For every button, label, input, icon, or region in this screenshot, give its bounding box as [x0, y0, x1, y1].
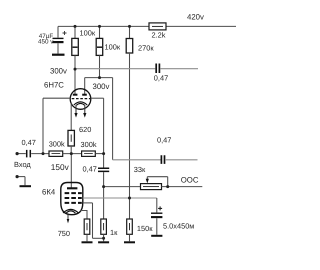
svg-text:270к: 270к: [138, 44, 154, 53]
svg-text:300k: 300k: [81, 140, 97, 149]
svg-text:750: 750: [58, 229, 70, 238]
svg-text:0,47: 0,47: [154, 74, 168, 83]
svg-text:300v: 300v: [93, 82, 110, 91]
svg-text:150v: 150v: [51, 162, 70, 172]
svg-text:150к: 150к: [137, 224, 153, 233]
svg-text:620: 620: [79, 125, 91, 134]
svg-text:2.2k: 2.2k: [152, 31, 166, 40]
svg-text:100к: 100к: [105, 43, 121, 52]
svg-text:5.0х450м: 5.0х450м: [163, 222, 194, 231]
svg-text:Вход: Вход: [14, 160, 31, 169]
svg-text:6К4: 6К4: [42, 188, 56, 197]
svg-text:1к: 1к: [110, 228, 118, 237]
svg-text:0,47: 0,47: [157, 136, 171, 145]
svg-text:100к: 100к: [80, 29, 96, 38]
svg-text:300k: 300k: [49, 140, 65, 149]
svg-text:ООС: ООС: [181, 176, 199, 185]
svg-text:0,47: 0,47: [83, 165, 97, 174]
svg-text:33к: 33к: [134, 165, 146, 174]
svg-text:300v: 300v: [50, 67, 67, 76]
svg-text:450 v: 450 v: [38, 39, 54, 46]
svg-text:6Н7С: 6Н7С: [44, 81, 64, 90]
svg-text:0,47: 0,47: [22, 138, 36, 147]
svg-text:420v: 420v: [187, 13, 204, 22]
